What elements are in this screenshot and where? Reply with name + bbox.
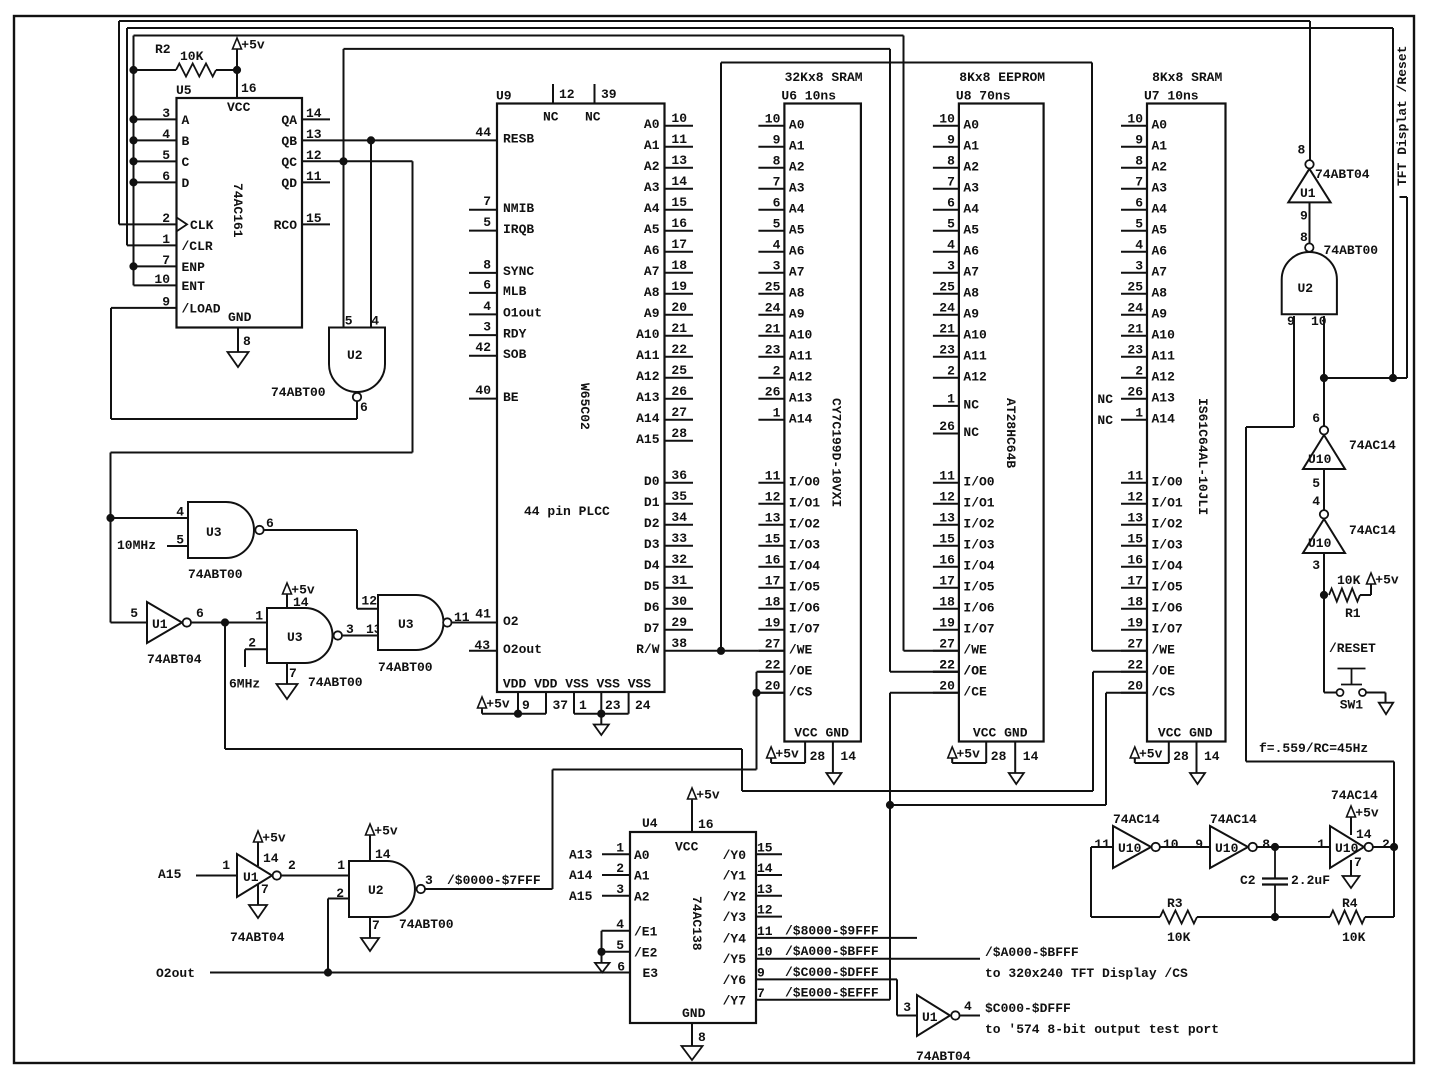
svg-text:NC: NC	[1097, 392, 1113, 407]
svg-text:/Y4: /Y4	[723, 931, 747, 946]
svg-text:74AC14: 74AC14	[1349, 438, 1396, 453]
svg-text:+5v: +5v	[1355, 806, 1379, 821]
wire U1b input	[111, 622, 148, 624]
svg-text:D7: D7	[644, 621, 660, 636]
wire R/W riser	[720, 63, 722, 651]
svg-text:A3: A3	[1152, 180, 1168, 195]
svg-text:11: 11	[1094, 837, 1110, 852]
svg-text:D2: D2	[644, 516, 660, 531]
svg-text:/Y0: /Y0	[723, 848, 747, 863]
U7 IS61C64AL 8Kx8 SRAM	[1144, 70, 1226, 742]
svg-text:/CS: /CS	[1152, 684, 1176, 699]
wire U3a out to U3c pin12	[265, 530, 379, 609]
wire 6MHz elbow	[245, 649, 267, 667]
svg-text:7: 7	[1135, 174, 1143, 189]
+5v at U4	[688, 788, 720, 833]
svg-text:NC: NC	[963, 397, 979, 412]
inverter U10 74AC14 a	[1303, 411, 1396, 491]
svg-text:A7: A7	[789, 264, 805, 279]
svg-text:SW1: SW1	[1340, 698, 1364, 713]
svg-text:I/O3: I/O3	[963, 537, 994, 552]
svg-text:31: 31	[671, 573, 687, 588]
label $C000-$DFFF	[985, 1001, 1071, 1016]
U3a output bubble	[255, 526, 263, 534]
svg-text:9: 9	[773, 132, 781, 147]
+5v at R2	[233, 38, 265, 53]
svg-text:/RESET: /RESET	[1329, 641, 1376, 656]
label /$A000-$BFFF right	[985, 945, 1079, 960]
svg-text:74ABT00: 74ABT00	[1324, 243, 1379, 258]
U6 CY7C199D 32Kx8 SRAM pins	[758, 111, 820, 699]
svg-text:CLK: CLK	[190, 218, 214, 233]
svg-text:74ABT00: 74ABT00	[308, 675, 363, 690]
svg-text:11: 11	[454, 610, 470, 625]
U6 CY7C199D 32Kx8 SRAM bottom pins	[771, 726, 856, 774]
svg-text:I/O6: I/O6	[963, 600, 994, 615]
junction dots pullup rail	[130, 66, 137, 270]
svg-text:A15: A15	[636, 432, 660, 447]
svg-text:A13: A13	[636, 390, 660, 405]
svg-text:12: 12	[361, 594, 377, 609]
svg-text:NC: NC	[963, 425, 979, 440]
svg-text:3: 3	[425, 873, 433, 888]
wire /RESET TFT drop	[1392, 28, 1394, 378]
svg-text:A6: A6	[789, 243, 805, 258]
svg-text:8: 8	[1298, 143, 1306, 158]
svg-text:R2: R2	[155, 42, 171, 57]
U8 AT28HC64B 8Kx8 EEPROM	[956, 70, 1045, 742]
svg-text:74ABT00: 74ABT00	[188, 567, 243, 582]
svg-text:6: 6	[947, 195, 955, 210]
inverter U10 74AC14 d	[1210, 812, 1270, 868]
svg-text:7: 7	[773, 174, 781, 189]
svg-text:A1: A1	[634, 869, 650, 884]
svg-text:/CLR: /CLR	[182, 239, 213, 254]
svg-text:23: 23	[1127, 342, 1143, 357]
svg-text:/$0000-$7FFF: /$0000-$7FFF	[447, 873, 541, 888]
wire U10a to U10b	[1312, 469, 1324, 510]
wire pullup left rail	[134, 36, 177, 286]
ground at U5	[228, 352, 249, 367]
wire U2c pin2 from O2out	[328, 899, 349, 973]
wire U3b gnd	[286, 663, 288, 684]
svg-text:+5v: +5v	[696, 788, 720, 803]
svg-text:74ABT00: 74ABT00	[271, 385, 326, 400]
svg-text:74ABT00: 74ABT00	[378, 660, 433, 675]
svg-text:A8: A8	[789, 285, 805, 300]
svg-text:A14: A14	[1152, 411, 1176, 426]
inverter U10 74AC14 b	[1303, 519, 1396, 573]
U4 enable pins	[598, 917, 658, 981]
svg-text:15: 15	[671, 195, 687, 210]
svg-text:13: 13	[939, 510, 955, 525]
wire QB to U2a pin4	[370, 140, 372, 327]
wire SW1 right to gnd	[1366, 693, 1385, 703]
ground at U6 CY7C199D 32Kx8 SRAM	[826, 773, 841, 784]
svg-text:41: 41	[475, 607, 491, 622]
ground at U4	[682, 1046, 703, 1060]
svg-text:U3: U3	[287, 630, 303, 645]
svg-text:U1: U1	[922, 1010, 938, 1025]
wire /CLR net	[127, 28, 177, 245]
svg-text:6: 6	[617, 960, 625, 975]
resistor R1	[1329, 573, 1361, 621]
svg-text:/WE: /WE	[789, 642, 813, 657]
svg-text:7: 7	[1354, 855, 1362, 870]
svg-text:A1: A1	[1152, 138, 1168, 153]
svg-text:R1: R1	[1345, 606, 1361, 621]
svg-text:2: 2	[947, 363, 955, 378]
wire U8 /OE from QC	[890, 49, 958, 672]
svg-text:A11: A11	[789, 348, 813, 363]
svg-text:12: 12	[757, 903, 773, 918]
svg-text:14: 14	[1356, 827, 1372, 842]
ground at U4 enables	[595, 963, 610, 973]
svg-text:23: 23	[765, 342, 781, 357]
svg-text:1: 1	[616, 840, 624, 855]
svg-text:A4: A4	[644, 201, 660, 216]
svg-text:W65C02: W65C02	[577, 383, 592, 430]
U4 GND wire	[692, 1023, 706, 1046]
svg-text:2: 2	[773, 363, 781, 378]
svg-text:I/O3: I/O3	[1152, 537, 1183, 552]
svg-text:14: 14	[671, 174, 687, 189]
svg-text:VCC GND: VCC GND	[794, 726, 849, 741]
label to 574 port	[985, 1022, 1219, 1037]
svg-text:C2: C2	[1240, 873, 1256, 888]
svg-text:32: 32	[671, 552, 687, 567]
svg-text:I/O0: I/O0	[963, 474, 994, 489]
svg-text:A7: A7	[644, 264, 660, 279]
svg-text:U2: U2	[368, 883, 384, 898]
U7 IS61C64AL 8Kx8 SRAM pins	[1121, 111, 1183, 699]
svg-text:1: 1	[773, 405, 781, 420]
svg-text:44: 44	[475, 125, 491, 140]
wire pullup net top run	[134, 35, 904, 37]
svg-text:3: 3	[483, 320, 491, 335]
nand U2 74ABT00 counter	[271, 314, 385, 416]
svg-text:NC: NC	[1097, 413, 1113, 428]
U3b pin14 label	[293, 595, 309, 610]
wire U3b out to U3c	[343, 622, 382, 637]
svg-text:9: 9	[947, 132, 955, 147]
svg-text:8: 8	[483, 257, 491, 272]
svg-text:40: 40	[475, 383, 491, 398]
svg-text:SOB: SOB	[503, 347, 527, 362]
svg-text:29: 29	[671, 615, 687, 630]
svg-text:5: 5	[176, 533, 184, 548]
svg-text:10K: 10K	[1337, 573, 1361, 588]
svg-text:A12: A12	[636, 369, 660, 384]
label O2out	[156, 966, 195, 981]
svg-text:7: 7	[289, 666, 297, 681]
svg-text:A14: A14	[636, 411, 660, 426]
svg-text:/E2: /E2	[634, 945, 658, 960]
svg-text:42: 42	[475, 340, 491, 355]
svg-text:10: 10	[671, 111, 687, 126]
svg-text:f=.559/RC=45Hz: f=.559/RC=45Hz	[1259, 741, 1368, 756]
U4 output pin labels	[723, 840, 773, 1008]
svg-text:17: 17	[939, 573, 955, 588]
svg-text:74AC14: 74AC14	[1331, 788, 1378, 803]
svg-text:D3: D3	[644, 537, 660, 552]
svg-text:10: 10	[757, 945, 773, 960]
U4 pin16 label	[698, 817, 714, 832]
wire R/W net top run	[721, 62, 1092, 64]
svg-text:27: 27	[671, 405, 687, 420]
svg-text:6: 6	[196, 606, 204, 621]
svg-text:8: 8	[773, 153, 781, 168]
svg-text:22: 22	[1127, 657, 1143, 672]
wire U10b input from reset node	[1320, 553, 1327, 693]
svg-text:8: 8	[1135, 153, 1143, 168]
U1d output bubble	[951, 1011, 959, 1019]
svg-text:A6: A6	[644, 243, 660, 258]
svg-text:8: 8	[243, 334, 251, 349]
svg-text:74ABT04: 74ABT04	[230, 930, 285, 945]
svg-text:U5: U5	[176, 83, 192, 98]
svg-text:15: 15	[1127, 531, 1143, 546]
wire A15 input	[196, 875, 237, 877]
U1c output bubble	[273, 871, 281, 879]
svg-text:16: 16	[1127, 552, 1143, 567]
svg-text:7: 7	[261, 882, 269, 897]
svg-text:74AC14: 74AC14	[1349, 523, 1396, 538]
svg-text:74AC161: 74AC161	[230, 183, 245, 238]
+5v at U1c	[254, 831, 286, 867]
svg-text:14: 14	[1204, 749, 1220, 764]
+5v at U9	[478, 697, 510, 712]
svg-text:I/O2: I/O2	[963, 516, 994, 531]
U1c pin14 label	[263, 851, 279, 866]
svg-text:74ABT04: 74ABT04	[916, 1049, 971, 1064]
svg-text:18: 18	[1127, 594, 1143, 609]
inverter U1 74ABT04 d	[903, 995, 972, 1064]
svg-text:A3: A3	[963, 180, 979, 195]
svg-text:A10: A10	[789, 327, 813, 342]
inverter U10 74AC14 c	[1094, 812, 1178, 868]
svg-text:/Y5: /Y5	[723, 952, 747, 967]
svg-text:10K: 10K	[1167, 930, 1191, 945]
svg-text:23: 23	[605, 698, 621, 713]
U5 pin numbers left	[154, 106, 170, 310]
wire U7 /OE stub	[1093, 671, 1147, 673]
svg-text:A13: A13	[789, 390, 813, 405]
svg-text:7: 7	[372, 918, 380, 933]
svg-text:A6: A6	[963, 243, 979, 258]
wire U7 /WE from R/W	[1092, 63, 1147, 651]
svg-text:3: 3	[947, 258, 955, 273]
U4 /Y3 stub	[756, 916, 782, 918]
svg-text:39: 39	[601, 87, 617, 102]
U5 VCC wire	[236, 49, 238, 98]
svg-text:A0: A0	[634, 848, 650, 863]
wire osc bottom rail	[1091, 913, 1394, 920]
svg-text:A0: A0	[789, 117, 805, 132]
svg-text:A15: A15	[158, 867, 182, 882]
svg-text:5: 5	[1312, 476, 1320, 491]
U5 pin names right	[274, 113, 298, 233]
svg-text:A1: A1	[789, 138, 805, 153]
U9 power pin names	[503, 677, 651, 692]
wire CLK net	[119, 21, 177, 224]
+5v at R1	[1367, 573, 1399, 588]
svg-text:17: 17	[765, 573, 781, 588]
svg-text:U4: U4	[642, 816, 658, 831]
+5v at U8 AT28HC64B 8Kx8 EEPROM	[948, 747, 980, 762]
svg-text:I/O4: I/O4	[963, 558, 994, 573]
wire O2out to E3	[210, 969, 630, 976]
svg-text:E3: E3	[643, 966, 659, 981]
svg-text:38: 38	[671, 636, 687, 651]
svg-text:A7: A7	[1152, 264, 1168, 279]
wire U1c out to U2c	[282, 875, 350, 877]
svg-text:25: 25	[671, 363, 687, 378]
svg-text:A14: A14	[789, 411, 813, 426]
svg-text:74ABT00: 74ABT00	[399, 917, 454, 932]
svg-text:VCC GND: VCC GND	[973, 726, 1028, 741]
svg-text:NC: NC	[543, 110, 559, 125]
svg-text:25: 25	[765, 279, 781, 294]
svg-text:A12: A12	[963, 369, 987, 384]
U5 CLK edge marker	[177, 217, 188, 231]
resistor R3	[1160, 896, 1197, 945]
svg-text:12: 12	[559, 87, 575, 102]
svg-text:74AC138: 74AC138	[689, 896, 704, 951]
svg-text:A2: A2	[634, 889, 650, 904]
svg-text:O2: O2	[503, 614, 519, 629]
svg-text:/Y2: /Y2	[723, 889, 747, 904]
svg-text:/Y7: /Y7	[723, 993, 746, 1008]
svg-text:14: 14	[757, 861, 773, 876]
nand U3 74ABT00 a	[176, 502, 274, 582]
U7 IS61C64AL 8Kx8 SRAM bottom pins	[1135, 726, 1220, 774]
wire U10c to U10d	[1160, 837, 1210, 852]
wire U8 /CE net	[886, 693, 958, 1000]
svg-text:10K: 10K	[180, 49, 204, 64]
svg-text:/Y6: /Y6	[723, 973, 747, 988]
U2c pin14 label	[375, 847, 391, 862]
svg-text:27: 27	[939, 636, 955, 651]
label TFT Displat /Reset	[1395, 46, 1410, 186]
wire QC net top run	[344, 48, 891, 50]
svg-text:I/O4: I/O4	[1152, 558, 1183, 573]
svg-text:12: 12	[765, 489, 781, 504]
U5 74AC161 counter	[176, 83, 302, 328]
label 10MHz	[117, 538, 156, 553]
svg-text:/OE: /OE	[1152, 663, 1176, 678]
wire /Y5 $A000	[756, 944, 980, 959]
wire R/W to U6 /WE	[665, 647, 785, 654]
svg-text:I/O6: I/O6	[789, 600, 820, 615]
svg-text:A4: A4	[789, 201, 805, 216]
svg-text:A5: A5	[789, 222, 805, 237]
svg-text:A9: A9	[963, 306, 979, 321]
U5 QA stub	[302, 118, 330, 120]
svg-text:26: 26	[671, 384, 687, 399]
svg-text:10: 10	[1127, 111, 1143, 126]
+5v at U2c	[366, 824, 398, 862]
wire TFT /Reset leader	[1393, 197, 1407, 378]
svg-text:13: 13	[1127, 510, 1143, 525]
svg-text:RCO: RCO	[274, 218, 298, 233]
svg-text:3: 3	[616, 882, 624, 897]
svg-text:QA: QA	[281, 113, 297, 128]
U9 W65C02 CPU	[496, 89, 665, 693]
svg-text:14: 14	[293, 595, 309, 610]
svg-text:A3: A3	[644, 180, 660, 195]
label /$0000-$7FFF	[447, 873, 541, 888]
svg-text:U3: U3	[398, 617, 414, 632]
wire U2c gnd	[369, 917, 371, 938]
svg-text:14: 14	[1023, 749, 1039, 764]
svg-text:25: 25	[1127, 279, 1143, 294]
U5 pin numbers right	[306, 106, 322, 226]
wire U6 select net	[553, 672, 785, 889]
U8 AT28HC64B 8Kx8 EEPROM bottom pins	[952, 726, 1038, 774]
svg-text:5: 5	[947, 216, 955, 231]
svg-text:28: 28	[810, 749, 826, 764]
svg-text:8: 8	[1262, 837, 1270, 852]
svg-text:/$8000-$9FFF: /$8000-$9FFF	[785, 923, 879, 938]
svg-text:16: 16	[241, 81, 257, 96]
svg-text:/Y1: /Y1	[723, 869, 747, 884]
ground at U3b	[277, 684, 298, 699]
U9 R/W pin	[636, 636, 687, 657]
svg-text:U10: U10	[1308, 452, 1332, 467]
svg-text:19: 19	[765, 615, 781, 630]
svg-text:A5: A5	[644, 222, 660, 237]
svg-text:8: 8	[698, 1030, 706, 1045]
svg-text:1: 1	[255, 609, 263, 624]
U1c pin7 label	[261, 882, 269, 897]
svg-text:I/O3: I/O3	[789, 537, 820, 552]
svg-text:A2: A2	[644, 159, 660, 174]
inverter U1 74ABT04 a	[1288, 143, 1370, 224]
wire R1 to +5v	[1360, 584, 1371, 595]
svg-text:I/O2: I/O2	[1152, 516, 1183, 531]
svg-text:U8 70ns: U8 70ns	[956, 89, 1011, 104]
svg-text:U1: U1	[243, 870, 259, 885]
svg-text:13: 13	[757, 882, 773, 897]
svg-text:44 pin PLCC: 44 pin PLCC	[524, 504, 610, 519]
wire O2 to CPU	[452, 607, 498, 626]
svg-text:10K: 10K	[1342, 930, 1366, 945]
svg-text:18: 18	[765, 594, 781, 609]
svg-text:9: 9	[1135, 132, 1143, 147]
U5 QD stub	[302, 181, 330, 183]
svg-text:+5v: +5v	[374, 824, 398, 839]
U4 /Y2 stub	[756, 895, 782, 897]
svg-text:36: 36	[671, 468, 687, 483]
label /RESET	[1329, 641, 1376, 656]
svg-text:I/O5: I/O5	[963, 579, 994, 594]
svg-text:GND: GND	[228, 310, 252, 325]
svg-text:CY7C199D-10VXI: CY7C199D-10VXI	[828, 398, 843, 507]
svg-text:15: 15	[757, 840, 773, 855]
svg-text:A: A	[182, 113, 190, 128]
svg-text:/OE: /OE	[789, 663, 813, 678]
svg-text:TFT Displat /Reset: TFT Displat /Reset	[1395, 46, 1410, 186]
svg-text:A1: A1	[963, 138, 979, 153]
svg-text:+5v: +5v	[1375, 573, 1399, 588]
svg-text:D6: D6	[644, 600, 660, 615]
svg-text:4: 4	[483, 299, 491, 314]
svg-text:R/W: R/W	[636, 642, 660, 657]
svg-text:4: 4	[1312, 494, 1320, 509]
wire U10e out	[1373, 843, 1397, 917]
svg-text:QD: QD	[281, 176, 297, 191]
